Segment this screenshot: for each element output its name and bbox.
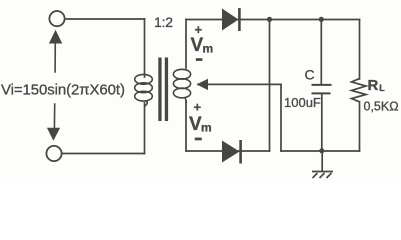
wire top rail (186, 19, 360, 21)
wire ground rail (281, 150, 360, 152)
junction dot capacitor top node (319, 17, 324, 22)
source arrow shaft upper (54, 43, 56, 73)
terminal bottom-left (46, 146, 61, 161)
svg-text:m: m (201, 121, 212, 135)
svg-text:C: C (305, 67, 315, 83)
capacitor C1 plates (312, 85, 332, 94)
wire diode riser (269, 20, 271, 152)
wire secondary vertical lower (185, 101, 187, 151)
wire primary vertical upper (144, 19, 146, 77)
wire bottom-left horizontal (62, 153, 145, 155)
diode D1 (222, 8, 239, 31)
transformer core bar 1 (158, 58, 161, 122)
source arrowhead down (47, 128, 60, 141)
diode D2 (222, 140, 241, 164)
primary coil L1 (135, 74, 153, 106)
svg-text:R: R (368, 77, 379, 94)
wire capacitor branch upper (320, 20, 322, 85)
svg-text:Vi=150sin(2πX60t): Vi=150sin(2πX60t) (1, 82, 125, 99)
wire center-tap horizontal (198, 83, 281, 85)
terminal top-left (49, 11, 64, 26)
svg-text:1:2: 1:2 (154, 14, 173, 30)
wire resistor branch lower (359, 102, 361, 151)
svg-text:0,5KΩ: 0,5KΩ (364, 100, 399, 114)
secondary coil L2 (173, 69, 190, 103)
label - bottom winding (195, 138, 202, 141)
ground (312, 151, 333, 178)
wire secondary vertical upper (185, 20, 187, 69)
junction dot ground node (319, 148, 324, 153)
svg-text:+: + (194, 100, 202, 115)
center-tap arrowhead (197, 79, 209, 90)
resistor RL zigzag (352, 79, 367, 102)
wire top-left horizontal (65, 18, 145, 20)
wire capacitor branch lower (321, 94, 323, 151)
transformer core bar 2 (165, 58, 168, 122)
wire resistor branch upper (359, 20, 361, 80)
svg-text:L: L (379, 83, 385, 93)
source arrow shaft lower (53, 104, 55, 129)
svg-text:m: m (203, 42, 214, 56)
source arrowhead up (49, 30, 62, 44)
wire primary vertical lower (144, 103, 146, 154)
junction dot diode node (267, 17, 272, 22)
wire center-tap drop (280, 84, 282, 151)
wire bottom diode segment (186, 150, 270, 152)
svg-text:100uF: 100uF (284, 95, 321, 110)
label - top winding (196, 58, 203, 61)
